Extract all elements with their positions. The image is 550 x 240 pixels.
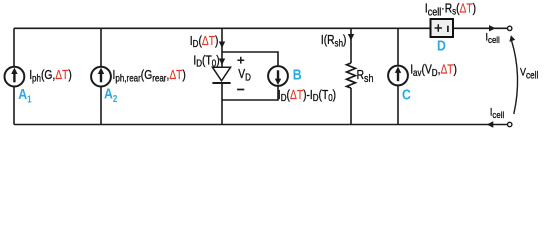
wire left rail (13, 28, 15, 124)
wire source B bottom to diode (222, 86, 278, 100)
arrow Icell top (489, 25, 496, 31)
wire Rsh branch (350, 28, 352, 63)
current source A1 (5, 67, 25, 87)
wire diode cathode down (221, 83, 223, 124)
wire top rail (14, 27, 431, 29)
arrow ID(dT) (219, 42, 225, 49)
voltage source D box (431, 19, 454, 37)
arrow I(Rsh) (348, 34, 354, 41)
wire source C branch (397, 28, 399, 124)
current source C (388, 66, 408, 86)
diode D (212, 67, 230, 83)
wire diode branch from top rail (221, 28, 223, 67)
svg-text:Icell: Icell (490, 107, 504, 121)
arrow Icell bottom (487, 121, 494, 127)
Vcell arc arrow (509, 35, 517, 114)
current source A2 (91, 67, 111, 87)
wire top rail right of box D (453, 27, 508, 29)
wire to source B top (222, 52, 278, 66)
plus sign diode (237, 57, 244, 64)
svg-text:D: D (437, 37, 446, 53)
wire bottom rail (14, 124, 508, 126)
wire branch A2 (100, 28, 102, 124)
minus sign diode (237, 89, 244, 91)
svg-text:Icell: Icell (486, 32, 500, 46)
svg-text:B: B (293, 66, 302, 82)
terminal bottom right (508, 122, 512, 126)
terminal top right (508, 26, 512, 30)
svg-text:ID(ΔT)-ID(T0): ID(ΔT)-ID(T0) (278, 89, 336, 103)
wire Rsh bottom (350, 88, 352, 125)
svg-text:C: C (402, 86, 411, 102)
arrow ID(T0) (219, 59, 225, 66)
resistor Rsh (347, 63, 356, 88)
current source B (268, 66, 288, 86)
svg-text:I(Rsh): I(Rsh) (321, 34, 347, 48)
